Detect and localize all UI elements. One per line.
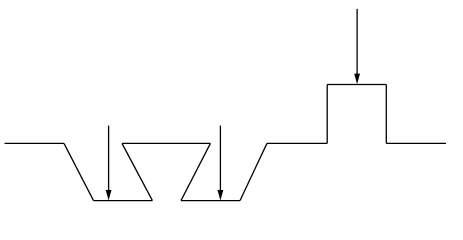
arrow 3: down arrow onto pulse top bbox=[354, 9, 360, 84]
wire: bottom of second dip bbox=[181, 200, 240, 202]
arrow 1: down arrow into first dip bbox=[106, 126, 112, 201]
wire: bottom of first dip bbox=[94, 200, 153, 202]
wire: right baseline segment bbox=[386, 142, 446, 144]
wire: left baseline segment bbox=[5, 142, 65, 144]
wire: pulse right vertical edge bbox=[385, 85, 387, 144]
wire: baseline before pulse bbox=[267, 142, 327, 144]
wire: middle top segment between dips bbox=[122, 142, 210, 144]
wire: pulse left vertical edge bbox=[326, 85, 328, 144]
wire: rising edge of second dip bbox=[240, 143, 267, 200]
arrow 2: down arrow into second dip bbox=[218, 126, 224, 201]
wire: backward-leaning right edge of first dip bbox=[122, 143, 152, 200]
wire: falling edge of first dip bbox=[64, 143, 94, 200]
wire: pulse top segment bbox=[327, 84, 386, 86]
wire: backward-leaning left edge of second dip bbox=[181, 143, 210, 200]
